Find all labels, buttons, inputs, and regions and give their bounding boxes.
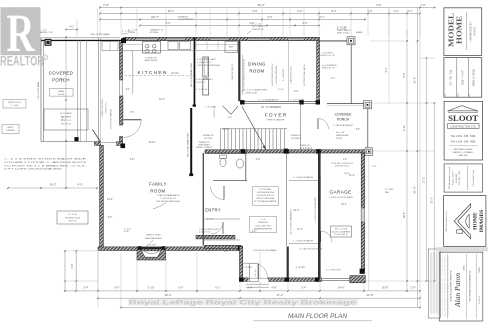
leader lines: [193, 76, 197, 79]
svg-text:5'-10": 5'-10": [148, 285, 155, 289]
beam line dining to porch post: [320, 40, 348, 42]
svg-text:2'-0": 2'-0": [408, 10, 413, 13]
svg-text:3'-0 x 6'-8: 3'-0 x 6'-8: [255, 269, 257, 276]
svg-text:6'-8": 6'-8": [108, 217, 113, 219]
svg-text:ROOM: ROOM: [249, 69, 264, 74]
svg-text:9 x 7 OH DOOR: 9 x 7 OH DOOR: [326, 270, 341, 272]
svg-text:DOOR W 4T OC: DOOR W 4T OC: [335, 166, 350, 168]
svg-text:EXTEND: EXTEND: [150, 32, 159, 34]
post porch northeast nested: [347, 37, 355, 45]
svg-text:4'-8": 4'-8": [271, 285, 276, 289]
wall dining-foyer with opening: [240, 100, 320, 102]
svg-text:2'-8": 2'-8": [372, 166, 377, 168]
annotation entry boxed note 2: [250, 217, 277, 233]
svg-text:16 R RISERS: 16 R RISERS: [300, 148, 313, 150]
foyer closet divider: [300, 103, 302, 150]
svg-text:43821: 43821: [464, 264, 466, 270]
svg-text:6'-6": 6'-6": [70, 263, 74, 268]
porch house boundary line: [98, 38, 100, 142]
wall garage south corner piece: [350, 276, 366, 283]
svg-text:7 OAK SQUARE ARCH: 7 OAK SQUARE ARCH: [157, 194, 180, 197]
svg-text:LARGE CORNERS: LARGE CORNERS: [196, 146, 212, 149]
svg-text:4'-0": 4'-0": [302, 21, 307, 25]
svg-text:C.J. 16 4F: C.J. 16 4F: [68, 214, 78, 216]
svg-text:4'-0": 4'-0": [77, 183, 82, 187]
post foyer corner east: [316, 100, 320, 104]
svg-text:FIBERGLASS: FIBERGLASS: [336, 134, 349, 137]
wall family-entry divider: [202, 153, 204, 245]
svg-text:W8 x 18 STL BEAM OVER: W8 x 18 STL BEAM OVER: [187, 132, 190, 156]
watermark REALTOR registered mark: [43, 55, 48, 60]
porch right roof edge line: [350, 45, 352, 104]
wall entry west vertical: [240, 247, 243, 282]
svg-text:4" CONC FLOOR GRADE: 4" CONC FLOOR GRADE: [299, 248, 323, 251]
svg-text:21'-2": 21'-2": [430, 197, 434, 204]
svg-text:14'-0": 14'-0": [107, 199, 113, 201]
bath walls: [205, 153, 247, 155]
svg-text:16 4T O.C.: 16 4T O.C.: [61, 120, 72, 122]
svg-text:9'-4": 9'-4": [165, 21, 170, 25]
dining china cabinet line: [242, 55, 244, 95]
svg-text:FAMILY: FAMILY: [149, 182, 167, 187]
svg-text:2 x10 W 4T SJ: 2 x10 W 4T SJ: [214, 106, 216, 118]
svg-text:K I T C H E N: K I T C H E N: [138, 70, 167, 76]
svg-text:2 - 2x10: 2 - 2x10: [11, 105, 19, 107]
svg-text:16 RISERS: 16 RISERS: [291, 138, 302, 140]
wall porch south with main door opening: [95, 142, 123, 146]
svg-text:PATIO DOOR: PATIO DOOR: [8, 101, 21, 104]
window west wall: [119, 80, 121, 96]
svg-text:MAIN: MAIN: [58, 90, 64, 93]
porch interior dim: [66, 29, 77, 31]
svg-text:R: R: [44, 56, 47, 60]
svg-text:16'-8": 16'-8": [402, 212, 406, 219]
svg-text:8'-0": 8'-0": [331, 78, 336, 80]
svg-text:PRE 5/2" INSULATED: PRE 5/2" INSULATED: [257, 197, 275, 200]
corridor flush beam line: [289, 180, 318, 182]
svg-text:PORCH: PORCH: [52, 78, 70, 83]
svg-text:REGISTRATION INFORMATION: REGISTRATION INFORMATION: [469, 270, 472, 301]
annotation entry boxed note 1: [253, 187, 279, 206]
svg-text:CHIMNEY BRG ROOF: CHIMNEY BRG ROOF: [102, 98, 104, 117]
steel beam kitchen: [194, 37, 196, 105]
svg-text:16'-8": 16'-8": [382, 285, 389, 289]
svg-text:HOME: HOME: [456, 16, 464, 44]
right vertical dimension extension 1: [388, 8, 390, 104]
left dimension 10ft2: [8, 187, 97, 189]
svg-text:Alan Paton: Alan Paton: [453, 273, 462, 308]
garage door opening: [322, 277, 360, 282]
svg-text:STAND UP: STAND UP: [300, 144, 311, 147]
right dimension connectors: [370, 102, 435, 104]
svg-text:5'-6": 5'-6": [356, 129, 361, 131]
svg-text:3 - 2 x10 LVL: 3 - 2 x10 LVL: [196, 89, 209, 91]
svg-text:8'-4": 8'-4": [331, 9, 336, 13]
svg-text:5x8 / 5'8 PRE TRANSOM: 5x8 / 5'8 PRE TRANSOM: [110, 108, 113, 129]
kitchen counter edge top: [121, 50, 238, 52]
fireplace header beam: [139, 247, 164, 248]
post foyer south 2: [284, 149, 289, 154]
svg-text:SECTION OF WALL ABOVE: SECTION OF WALL ABOVE: [319, 176, 322, 200]
fireplace bumpout: [137, 249, 166, 260]
left porch dimension extensions: [76, 20, 78, 38]
wall foyer south band with posts: [205, 150, 369, 153]
svg-text:4 - 2 x10: 4 - 2 x10: [337, 29, 347, 31]
annotation left edge small 2: [2, 125, 19, 134]
svg-text:COVERED: COVERED: [49, 71, 74, 76]
svg-text:KING STUD: KING STUD: [337, 33, 349, 35]
svg-text:2 x10 W 4T SJ 16 OC: 2 x10 W 4T SJ 16 OC: [232, 63, 234, 80]
svg-text:TO POST W/ 2 x 6 BRACING +2 G: TO POST W/ 2 x 6 BRACING +2 G.S.: [4, 164, 87, 167]
svg-text:1'-6": 1'-6": [343, 159, 348, 161]
svg-text:2 x6 BLOCKING RIM W 2T x8: 2 x6 BLOCKING RIM W 2T x8: [272, 64, 274, 87]
porch steps vertical lines: [77, 40, 79, 142]
kitchen northwest corner cabinet: [102, 42, 118, 51]
svg-text:DOOR: DOOR: [336, 138, 343, 140]
svg-text:21'-0": 21'-0": [413, 77, 417, 84]
svg-text:Fergus, Ontario: Fergus, Ontario: [451, 170, 454, 185]
svg-text:C/W CLOSET ROD: C/W CLOSET ROD: [255, 225, 271, 227]
svg-text:888 WHELL ROAD,: 888 WHELL ROAD,: [454, 148, 474, 151]
post south wall 2: [285, 277, 289, 281]
wall family room west exterior: [100, 145, 104, 250]
window top wall dining 1: [248, 38, 270, 40]
wall west below door: [120, 137, 123, 145]
wall entry closet upper: [196, 235, 235, 239]
svg-text:5 - 2 x10: 5 - 2 x10: [243, 267, 253, 269]
svg-text:10'-4": 10'-4": [159, 99, 165, 101]
kitchen upper cabinet lines: [121, 44, 142, 46]
svg-text:5'-2": 5'-2": [297, 9, 302, 13]
bath sink: [236, 159, 243, 168]
wall family south exterior: [98, 247, 241, 251]
left vertical dimension line upper: [65, 37, 67, 188]
svg-text:4 - 2 x10 FLUSH ABOVE: 4 - 2 x10 FLUSH ABOVE: [293, 176, 314, 179]
post foyer south 3: [316, 149, 321, 154]
entry door opening: [249, 277, 269, 282]
steel beam family room segment: [190, 108, 192, 175]
svg-text:2 x6 W 4T SJ: 2 x6 W 4T SJ: [106, 103, 108, 114]
svg-text:4'-6": 4'-6": [228, 117, 233, 119]
right vertical dimension line 3: [417, 8, 419, 308]
svg-text:10'-2": 10'-2": [49, 183, 56, 187]
sheet edge gray band: [436, 247, 488, 251]
svg-text:C/W CROSS BRIDGING: C/W CROSS BRIDGING: [197, 65, 220, 67]
svg-text:2 x10 JOIST 16 4T OC: 2 x10 JOIST 16 4T OC: [291, 66, 293, 84]
svg-text:RR# Conc.6 Arthur, Ont.: RR# Conc.6 Arthur, Ont.: [445, 210, 448, 231]
svg-text:41'-4": 41'-4": [413, 186, 417, 193]
svg-text:10'-6": 10'-6": [278, 89, 284, 91]
svg-text:3'-4": 3'-4": [83, 285, 88, 289]
svg-text:14'-8": 14'-8": [338, 285, 345, 289]
post porch west-south: [74, 137, 78, 141]
porch west edge vertical double: [40, 38, 42, 142]
svg-text:4'-11": 4'-11": [402, 125, 406, 131]
titleblock box sloot construction: [444, 101, 482, 160]
refrigerator dining wall: [225, 42, 238, 53]
kitchen island: [203, 57, 209, 77]
svg-text:HARD WHITE: HARD WHITE: [145, 59, 158, 62]
svg-text:2 x10 RIM JOISTS: 2 x10 RIM JOISTS: [196, 79, 213, 81]
svg-text:5'-4": 5'-4": [301, 285, 306, 289]
svg-text:2 x6 W 4T SJ: 2 x6 W 4T SJ: [199, 232, 210, 234]
garage east window: [361, 209, 365, 222]
svg-text:17'-2": 17'-2": [276, 293, 283, 297]
svg-text:WEATHERSTRIPPING: WEATHERSTRIPPING: [254, 228, 273, 231]
svg-text:ENTRY: ENTRY: [205, 208, 221, 213]
svg-text:2 x10 W 4T SJ C/W BRIDGING: 2 x10 W 4T SJ C/W BRIDGING: [315, 197, 317, 223]
svg-text:Custom Home Designs: Custom Home Designs: [480, 211, 483, 232]
post porch northwest dark: [45, 39, 52, 46]
svg-text:6'-0": 6'-0": [267, 15, 272, 19]
wall kitchen-dining divider: [238, 41, 240, 101]
svg-text:8'-0": 8'-0": [402, 72, 406, 77]
front entry door jamb: [250, 263, 259, 282]
wall top exterior: [124, 37, 320, 40]
svg-text:6'-0": 6'-0": [178, 285, 183, 289]
annotation left small box upper: [44, 109, 88, 130]
svg-text:4 - 2 x6 TO BEAR OVER: 4 - 2 x6 TO BEAR OVER: [244, 89, 268, 92]
svg-text:5'-10.5": 5'-10.5": [207, 219, 214, 221]
svg-text:POST: POST: [122, 33, 128, 35]
garage man door arc: [321, 231, 332, 242]
svg-text:6'-0": 6'-0": [376, 3, 381, 7]
svg-text:2 x4 CROSS BRIDGING: 2 x4 CROSS BRIDGING: [276, 65, 278, 84]
window top wall 1: [137, 38, 157, 40]
svg-text:16'-10": 16'-10": [171, 72, 179, 75]
svg-text:LVL + JACK +: LVL + JACK +: [252, 25, 266, 28]
closet wall lines entry: [203, 218, 240, 220]
svg-text:2'-0": 2'-0": [394, 10, 399, 13]
svg-text:ARROLL, ONTARIO: ARROLL, ONTARIO: [453, 151, 473, 154]
wall south exterior entry-garage: [243, 278, 351, 281]
titleblock box project info: [444, 58, 482, 98]
svg-text:2x6 + 5/8: 2x6 + 5/8: [336, 132, 345, 134]
svg-text:F O Y E R: F O Y E R: [265, 113, 287, 119]
post foyer opening west: [240, 100, 244, 104]
svg-text:12'-6": 12'-6": [223, 129, 229, 131]
svg-text:3/16" = 1'-0": 3/16" = 1'-0": [461, 70, 465, 85]
wall kitchen west exterior mid: [120, 96, 123, 125]
wall garage east exterior: [361, 153, 364, 271]
svg-text:2 - 2 x 10: 2 - 2 x 10: [252, 23, 262, 25]
svg-text:SCRIBE ON: SCRIBE ON: [203, 135, 214, 137]
svg-text:4 - 2 x 10 BEAM ABOVE: 4 - 2 x 10 BEAM ABOVE: [258, 98, 279, 101]
dimension line top chain 4: [140, 25, 319, 27]
titleblock box designer info: [444, 164, 482, 192]
svg-text:2 x10 W 4T SJ: 2 x10 W 4T SJ: [197, 62, 211, 64]
svg-text:POST: POST: [124, 231, 130, 233]
sloot roof logo: [448, 106, 478, 111]
svg-text:23 - 36 - 112: 23 - 36 - 112: [449, 69, 453, 85]
left lower vertical dimension lines: [64, 251, 66, 291]
svg-text:4'-0": 4'-0": [69, 27, 74, 29]
sloot construction ltd box: [448, 124, 479, 129]
front entry door arc: [258, 264, 267, 278]
door porch to family room: [124, 120, 142, 138]
svg-text:4 - 2 x10: 4 - 2 x10: [296, 267, 306, 269]
svg-text:W 4T SJ: W 4T SJ: [69, 221, 77, 223]
svg-text:2" x10 W 4T SJ: 2" x10 W 4T SJ: [160, 198, 175, 200]
svg-text:COLUMN 2 TYPICAL 2 - ANCHOR B: COLUMN 2 TYPICAL 2 - ANCHOR BOLTS: [4, 161, 87, 164]
bottom dimension extension lines: [64, 252, 66, 291]
svg-text:2x6 STUDS W 4T OC: 2x6 STUDS W 4T OC: [257, 195, 275, 197]
svg-text:OPEN TO ABOVE: OPEN TO ABOVE: [267, 118, 285, 121]
svg-text:2 P.T CUPS ON EQUIVALENT: 2 P.T CUPS ON EQUIVALENT: [4, 168, 63, 171]
svg-text:BRICK: BRICK: [7, 127, 14, 129]
svg-text:HOME: HOME: [473, 212, 479, 230]
svg-text:16'-10": 16'-10": [148, 142, 155, 144]
svg-text:TO EXTERIOR: TO EXTERIOR: [178, 19, 193, 21]
bottom dimension chain 2: [98, 297, 420, 299]
porch south edge line: [41, 141, 95, 143]
svg-text:MODEL: MODEL: [448, 13, 456, 47]
svg-text:27'-2": 27'-2": [422, 177, 426, 184]
top dimension extension lines: [99, 9, 101, 37]
svg-text:TO 2x10 SPF #2: TO 2x10 SPF #2: [334, 234, 348, 236]
kitchen upper cabinet dividers: [195, 42, 197, 50]
svg-text:HGR @ 4T OC: HGR @ 4T OC: [322, 68, 335, 70]
post garage east end: [360, 269, 365, 274]
svg-text:3'-1": 3'-1": [224, 251, 229, 253]
post kitchen northwest corner: [121, 38, 126, 43]
wall corridor-stair divider: [287, 247, 289, 279]
dimension line top chain 2: [100, 13, 420, 15]
svg-text:W8 x 21 STEEL BEAM ABOVE: W8 x 21 STEEL BEAM ABOVE: [290, 209, 293, 235]
window top wall 3: [210, 38, 228, 40]
kitchen range with burners: [143, 42, 161, 54]
svg-text:5/8" T+G O.F.B.: 5/8" T+G O.F.B.: [334, 229, 348, 231]
svg-text:SLOOT: SLOOT: [448, 114, 479, 123]
svg-text:TEL 1-519 - 638 - 5462: TEL 1-519 - 638 - 5462: [451, 135, 476, 138]
window top wall dining 2: [288, 38, 304, 40]
svg-text:NOV 6 / 2023: NOV 6 / 2023: [472, 69, 476, 86]
svg-text:DINING: DINING: [248, 62, 266, 67]
foyer closet door arc: [318, 119, 329, 130]
svg-text:2x6 4T SJ: 2x6 4T SJ: [61, 124, 71, 126]
svg-text:9'-2": 9'-2": [126, 89, 131, 91]
svg-text:5 SLOPE FLOOR GRADE: 5 SLOPE FLOOR GRADE: [253, 249, 277, 252]
svg-text:15' - 8" OPENING: 15' - 8" OPENING: [261, 106, 281, 109]
svg-text:VENEER: VENEER: [6, 130, 15, 132]
svg-text:BEAM: BEAM: [356, 31, 362, 34]
post entry corner: [238, 246, 243, 251]
watermark REALTOR logo block: [1, 7, 41, 55]
svg-text:N1M 2W3: N1M 2W3: [456, 173, 458, 183]
wall dining room east: [317, 41, 320, 101]
porch north edge line: [327, 103, 364, 105]
svg-text:16 4T O.C.: 16 4T O.C.: [196, 82, 206, 84]
svg-text:Client: Sloot Const.: Client: Sloot Const.: [472, 169, 475, 187]
post south wall 1: [239, 277, 243, 281]
bottom dimension chain 3: [121, 307, 420, 309]
window top wall 2: [167, 38, 185, 40]
annotation left lower box: [57, 211, 88, 224]
svg-text:6'-1": 6'-1": [319, 15, 324, 19]
svg-text:DIRECT VENT: DIRECT VENT: [146, 235, 161, 237]
toilet: [220, 155, 227, 159]
beam end marker: [193, 105, 196, 107]
svg-text:JOB: JOB: [445, 94, 447, 97]
stair treads: [220, 129, 222, 150]
svg-text:20'-1": 20'-1": [168, 9, 175, 13]
svg-text:W8 x 18 STL BEAM: W8 x 18 STL BEAM: [37, 81, 40, 98]
svg-text:PORCH: PORCH: [337, 117, 350, 121]
post foyer opening east: [299, 100, 303, 104]
svg-text:HGR @ 4T OC: HGR @ 4T OC: [322, 55, 335, 57]
svg-text:4 - 2 x10: 4 - 2 x10: [122, 31, 131, 33]
wall kitchen west exterior upper: [120, 41, 123, 80]
post porch south corner: [121, 144, 126, 149]
post south wall 3: [315, 277, 319, 281]
porch east edge line: [367, 109, 369, 148]
post porch east nested: [364, 101, 372, 109]
svg-text:5'-2": 5'-2": [385, 67, 388, 72]
dimension line top chain 3: [100, 19, 365, 21]
svg-text:ROAD: ROAD: [473, 27, 477, 35]
kitchen sink: [168, 42, 178, 50]
svg-text:W 4' SON: W 4' SON: [204, 138, 213, 140]
entry exterior steps: [246, 283, 269, 285]
post foyer south 1: [241, 149, 246, 154]
svg-text:KING STUD: KING STUD: [252, 29, 264, 31]
svg-text:4 CONC FLOOR W GRADE: 4 CONC FLOOR W GRADE: [329, 196, 353, 199]
post corridor top: [284, 149, 288, 153]
svg-text:x7 LVL SILL 2 x6 W 4T OC: x7 LVL SILL 2 x6 W 4T OC: [331, 163, 354, 165]
svg-text:27'-1": 27'-1": [297, 229, 303, 231]
annotation garage box: [331, 226, 352, 237]
svg-text:5'-0": 5'-0": [367, 9, 372, 13]
svg-text:COVERED: COVERED: [335, 113, 352, 117]
bath door arc: [211, 186, 225, 200]
svg-text:6'-1": 6'-1": [215, 285, 220, 289]
svg-text:CONSTRUCTION LTD.: CONSTRUCTION LTD.: [450, 125, 476, 128]
svg-text:GLUED + SCREWED: GLUED + SCREWED: [332, 231, 351, 233]
svg-text:2 x6 DOUBLE JACK: 2 x6 DOUBLE JACK: [197, 58, 217, 61]
svg-text:2'-4": 2'-4": [294, 91, 299, 93]
porch west beam double line: [41, 37, 120, 39]
watermark bottom band: [128, 299, 358, 306]
entry step edge line: [242, 262, 250, 264]
svg-text:1/2" DRYWALLED PAINTED: 1/2" DRYWALLED PAINTED: [254, 200, 278, 203]
svg-text:7'-0": 7'-0": [103, 3, 109, 7]
svg-text:1/2" DRYWALL: 1/2" DRYWALL: [259, 188, 271, 191]
right vertical dimension line 2: [406, 30, 408, 291]
svg-text:ROOM: ROOM: [150, 189, 165, 194]
titleblock box home images logo: [444, 196, 486, 247]
kitchen beam dashed line: [121, 75, 193, 77]
svg-text:STAINLESS: STAINLESS: [258, 221, 269, 224]
pantry corner diagonals: [223, 106, 232, 115]
svg-text:<- 2 x 6 KING STUDS EACH SIDE: <- 2 x 6 KING STUDS EACH SIDE: [4, 158, 87, 161]
general notes box rotated: [428, 249, 440, 318]
svg-text:4" CONC: 4" CONC: [385, 189, 394, 191]
svg-text:24'-3": 24'-3": [293, 209, 299, 212]
svg-text:7'-0": 7'-0": [420, 3, 425, 7]
svg-text:GAS FIREPLACE: GAS FIREPLACE: [145, 237, 163, 240]
svg-text:11'-6": 11'-6": [349, 175, 355, 177]
svg-text:REALTOR: REALTOR: [0, 54, 44, 70]
svg-text:2 - 2 x10 JOIST: 2 - 2 x10 JOIST: [283, 69, 285, 81]
svg-text:N0B 1K0: N0B 1K0: [459, 155, 469, 157]
svg-text:+ KING STUD: + KING STUD: [244, 93, 258, 95]
svg-text:Royal LePage Royal City Realty: Royal LePage Royal City Realty Brokerage: [129, 299, 356, 306]
bottom dimension chain 1: [65, 290, 420, 292]
svg-text:45'-4": 45'-4": [257, 3, 265, 7]
stair direction arrow: [242, 107, 266, 150]
wall entry step west: [205, 245, 242, 248]
svg-text:W8 x 18 STL BEAM OVER: W8 x 18 STL BEAM OVER: [190, 62, 193, 86]
